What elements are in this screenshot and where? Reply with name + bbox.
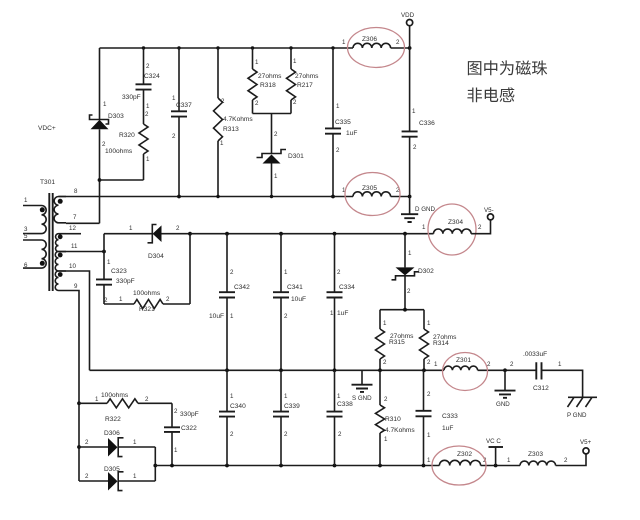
wire pin 7 to D303 branch xyxy=(66,222,100,224)
transformer T301 xyxy=(23,179,78,291)
svg-text:D306: D306 xyxy=(104,430,120,437)
svg-text:C324: C324 xyxy=(144,73,160,80)
svg-text:3: 3 xyxy=(24,226,28,233)
svg-text:1: 1 xyxy=(230,313,234,320)
capacitor C323 xyxy=(96,234,135,304)
terminal V5- xyxy=(471,207,494,234)
wire R318/R217 bottoms xyxy=(253,113,292,115)
svg-text:2: 2 xyxy=(172,133,176,140)
svg-text:V5+: V5+ xyxy=(580,439,592,446)
svg-text:100ohms: 100ohms xyxy=(133,290,161,297)
wire top rail xyxy=(100,46,412,50)
ferrite bead Z306 xyxy=(342,28,405,68)
svg-text:2: 2 xyxy=(284,431,288,438)
ferrite bead Z304 xyxy=(422,204,482,255)
resistor R318 xyxy=(248,48,282,114)
wire D304 right vertical xyxy=(188,232,192,304)
svg-text:P GND: P GND xyxy=(567,412,587,419)
svg-text:2: 2 xyxy=(221,98,225,105)
svg-text:D304: D304 xyxy=(148,253,164,260)
wire D303 to R320 bottom xyxy=(100,179,144,181)
svg-text:1: 1 xyxy=(255,59,259,66)
svg-text:D303: D303 xyxy=(108,113,124,120)
svg-text:1: 1 xyxy=(284,393,288,400)
capacitor C333 xyxy=(416,370,459,465)
wire secondary rail pin 8 xyxy=(59,195,412,199)
terminal V5+ xyxy=(580,439,592,454)
svg-text:2: 2 xyxy=(146,63,150,70)
svg-text:2: 2 xyxy=(284,313,288,320)
svg-text:1: 1 xyxy=(146,156,150,163)
svg-text:1: 1 xyxy=(384,436,388,443)
wire R315/R314 top xyxy=(380,308,424,312)
ferrite bead Z305 xyxy=(342,173,400,216)
capacitor C324 xyxy=(122,48,160,124)
svg-text:1: 1 xyxy=(274,173,278,180)
capacitor C339 xyxy=(273,370,300,465)
svg-text:Z303: Z303 xyxy=(528,451,543,458)
svg-text:1: 1 xyxy=(336,103,340,110)
svg-text:11: 11 xyxy=(71,243,78,250)
zener diode D303 xyxy=(90,48,125,223)
svg-text:1: 1 xyxy=(107,259,111,266)
resistor R321 xyxy=(104,290,190,313)
svg-text:R315: R315 xyxy=(389,339,405,346)
svg-text:1: 1 xyxy=(174,447,178,454)
svg-text:2: 2 xyxy=(337,269,341,276)
svg-text:D GND: D GND xyxy=(415,206,435,213)
svg-text:2: 2 xyxy=(230,431,234,438)
svg-text:Z301: Z301 xyxy=(456,357,471,364)
svg-text:1uF: 1uF xyxy=(346,130,357,137)
svg-text:R322: R322 xyxy=(105,416,121,423)
ferrite bead Z301 xyxy=(434,353,491,391)
ferrite bead Z303 xyxy=(507,451,568,466)
svg-text:1uF: 1uF xyxy=(337,310,348,317)
svg-text:12: 12 xyxy=(69,225,76,232)
zener diode D304 xyxy=(104,225,190,261)
svg-text:2: 2 xyxy=(174,408,178,415)
ground GND xyxy=(495,370,516,408)
wire pin 12 stub xyxy=(66,233,81,235)
svg-text:1: 1 xyxy=(230,393,234,400)
svg-text:Z306: Z306 xyxy=(362,36,377,43)
capacitor C338 xyxy=(327,370,354,465)
svg-text:C339: C339 xyxy=(284,403,300,410)
resistor R217 xyxy=(287,48,320,114)
svg-text:1: 1 xyxy=(427,457,431,464)
svg-text:1: 1 xyxy=(434,361,438,368)
svg-text:1: 1 xyxy=(342,39,346,46)
svg-text:R318: R318 xyxy=(260,82,276,89)
svg-text:8: 8 xyxy=(74,188,78,195)
svg-text:2: 2 xyxy=(166,296,170,303)
svg-text:1: 1 xyxy=(133,439,137,446)
svg-text:2: 2 xyxy=(384,396,388,403)
wire pin 10 to lower rail xyxy=(66,271,90,370)
svg-text:1: 1 xyxy=(284,269,288,276)
capacitor C334 xyxy=(327,234,356,371)
svg-text:1: 1 xyxy=(507,457,511,464)
ground PGND xyxy=(567,397,597,419)
svg-text:330pF: 330pF xyxy=(180,411,199,418)
svg-text:1: 1 xyxy=(383,320,387,327)
wire pin 9 down to D305/D306 xyxy=(66,291,81,482)
svg-text:6: 6 xyxy=(24,262,28,269)
svg-text:1: 1 xyxy=(129,225,133,232)
capacitor C312 xyxy=(510,351,562,392)
svg-text:2: 2 xyxy=(427,359,431,366)
svg-text:C334: C334 xyxy=(339,284,355,291)
svg-text:330pF: 330pF xyxy=(116,278,135,285)
svg-text:2: 2 xyxy=(293,99,297,106)
svg-text:.0033uF: .0033uF xyxy=(523,351,547,358)
wire bottom rail xyxy=(155,454,586,467)
svg-text:2: 2 xyxy=(104,297,108,304)
svg-text:2: 2 xyxy=(383,359,387,366)
svg-text:D301: D301 xyxy=(288,153,304,160)
wire pin 11 to C323 xyxy=(66,250,106,254)
svg-text:V5-: V5- xyxy=(484,207,494,214)
svg-text:C338: C338 xyxy=(337,401,353,408)
svg-text:VC C: VC C xyxy=(486,438,501,445)
capacitor C337 xyxy=(171,48,192,197)
ground SGND xyxy=(352,370,373,402)
svg-text:1: 1 xyxy=(172,95,176,102)
svg-text:2: 2 xyxy=(255,100,259,107)
resistor R322 xyxy=(79,392,172,423)
svg-text:2: 2 xyxy=(274,131,278,138)
svg-text:2: 2 xyxy=(427,391,431,398)
svg-text:2: 2 xyxy=(102,141,106,148)
svg-text:10uF: 10uF xyxy=(209,313,224,320)
svg-text:1: 1 xyxy=(427,432,431,439)
svg-text:2: 2 xyxy=(230,269,234,276)
svg-text:C341: C341 xyxy=(287,284,303,291)
note text chinese line 2 xyxy=(467,87,482,102)
svg-text:2: 2 xyxy=(487,361,491,368)
svg-text:2: 2 xyxy=(564,457,568,464)
resistor R313 xyxy=(214,48,254,197)
svg-text:C335: C335 xyxy=(335,119,351,126)
svg-text:100ohms: 100ohms xyxy=(101,392,129,399)
svg-text:2: 2 xyxy=(396,39,400,46)
capacitor C341 xyxy=(273,234,306,371)
svg-text:1uF: 1uF xyxy=(442,425,453,432)
svg-text:2: 2 xyxy=(413,144,417,151)
ferrite bead Z302 xyxy=(427,446,487,485)
wire lower mid rail xyxy=(90,368,583,397)
secondary winding pins 12-11 xyxy=(56,234,66,252)
secondary winding pins 10-9 xyxy=(55,271,66,291)
svg-text:D302: D302 xyxy=(418,268,434,275)
resistor R315 xyxy=(376,310,415,371)
svg-text:2: 2 xyxy=(336,147,340,154)
capacitor C322 xyxy=(164,403,199,465)
svg-text:C342: C342 xyxy=(234,284,250,291)
svg-text:2: 2 xyxy=(85,439,89,446)
svg-text:Z304: Z304 xyxy=(448,219,463,226)
svg-text:1: 1 xyxy=(133,473,137,480)
svg-text:10uF: 10uF xyxy=(291,296,306,303)
capacitor C336 xyxy=(402,48,435,197)
svg-text:7: 7 xyxy=(73,214,77,221)
svg-text:1: 1 xyxy=(24,197,28,204)
svg-text:C333: C333 xyxy=(442,413,458,420)
svg-text:27ohms: 27ohms xyxy=(258,73,282,80)
svg-text:VDC+: VDC+ xyxy=(38,125,56,132)
svg-text:VDD: VDD xyxy=(401,12,415,19)
svg-text:R310: R310 xyxy=(385,416,401,423)
svg-text:C322: C322 xyxy=(181,425,197,432)
svg-text:Z302: Z302 xyxy=(457,451,472,458)
zener diode D306 xyxy=(79,430,155,457)
capacitor C342 xyxy=(209,234,250,371)
primary winding pins 1-3 xyxy=(23,206,46,234)
svg-text:2: 2 xyxy=(407,288,411,295)
svg-text:GND: GND xyxy=(496,401,510,408)
svg-text:1: 1 xyxy=(408,250,412,257)
svg-text:R217: R217 xyxy=(297,82,313,89)
svg-text:1: 1 xyxy=(103,101,107,108)
transformer core xyxy=(49,193,52,291)
svg-text:27ohms: 27ohms xyxy=(295,73,319,80)
svg-text:1: 1 xyxy=(427,320,431,327)
svg-text:330pF: 330pF xyxy=(122,94,141,101)
zener diode D301 xyxy=(257,114,305,197)
svg-text:1: 1 xyxy=(412,108,416,115)
svg-text:5: 5 xyxy=(24,233,28,240)
svg-text:1: 1 xyxy=(220,140,224,147)
secondary winding pins 8-7 xyxy=(54,197,66,223)
capacitor C335 xyxy=(325,48,357,197)
svg-text:2: 2 xyxy=(145,111,149,118)
svg-text:2: 2 xyxy=(338,431,342,438)
note text chinese line 1 xyxy=(468,61,481,75)
svg-text:2: 2 xyxy=(145,396,149,403)
svg-text:2: 2 xyxy=(85,473,89,480)
svg-text:D305: D305 xyxy=(104,466,120,473)
svg-text:1: 1 xyxy=(330,310,334,317)
svg-text:1: 1 xyxy=(558,361,562,368)
primary winding pins 5-6 xyxy=(23,240,46,268)
svg-text:4.7Kohms: 4.7Kohms xyxy=(223,116,253,123)
wire output rail D304 xyxy=(190,232,434,236)
svg-text:C340: C340 xyxy=(230,403,246,410)
resistor R310 xyxy=(376,370,416,465)
svg-text:1: 1 xyxy=(293,58,297,65)
svg-text:4.7Kohms: 4.7Kohms xyxy=(385,427,415,434)
svg-text:1: 1 xyxy=(119,296,123,303)
ground DGND xyxy=(401,197,435,223)
capacitor C340 xyxy=(219,370,246,465)
resistor R320 xyxy=(105,111,150,180)
zener diode D302 xyxy=(392,234,435,310)
resistor R314 xyxy=(420,310,458,371)
svg-text:T301: T301 xyxy=(40,179,55,186)
svg-text:1: 1 xyxy=(337,393,341,400)
svg-text:R314: R314 xyxy=(433,340,449,347)
svg-text:C312: C312 xyxy=(533,385,549,392)
power terminal VDD xyxy=(401,12,415,48)
svg-text:1: 1 xyxy=(422,224,426,231)
svg-text:C337: C337 xyxy=(176,102,192,109)
svg-text:1: 1 xyxy=(95,396,99,403)
svg-text:C336: C336 xyxy=(419,120,435,127)
wire D306/D305 cathodes vertical xyxy=(153,447,157,481)
svg-text:Z305: Z305 xyxy=(362,185,377,192)
zener diode D305 xyxy=(79,466,155,491)
svg-text:C323: C323 xyxy=(111,268,127,275)
power terminal VCC xyxy=(486,438,503,466)
svg-text:1: 1 xyxy=(146,103,150,110)
svg-text:10: 10 xyxy=(69,263,76,270)
svg-text:9: 9 xyxy=(74,283,78,290)
svg-text:R320: R320 xyxy=(119,132,135,139)
svg-text:R321: R321 xyxy=(139,306,155,313)
svg-text:2: 2 xyxy=(478,224,482,231)
svg-text:2: 2 xyxy=(510,361,514,368)
svg-text:2: 2 xyxy=(176,225,180,232)
secondary winding pins 11-10 xyxy=(55,252,66,272)
svg-text:100ohms: 100ohms xyxy=(105,148,133,155)
svg-text:S GND: S GND xyxy=(352,395,372,402)
svg-text:R313: R313 xyxy=(223,126,239,133)
